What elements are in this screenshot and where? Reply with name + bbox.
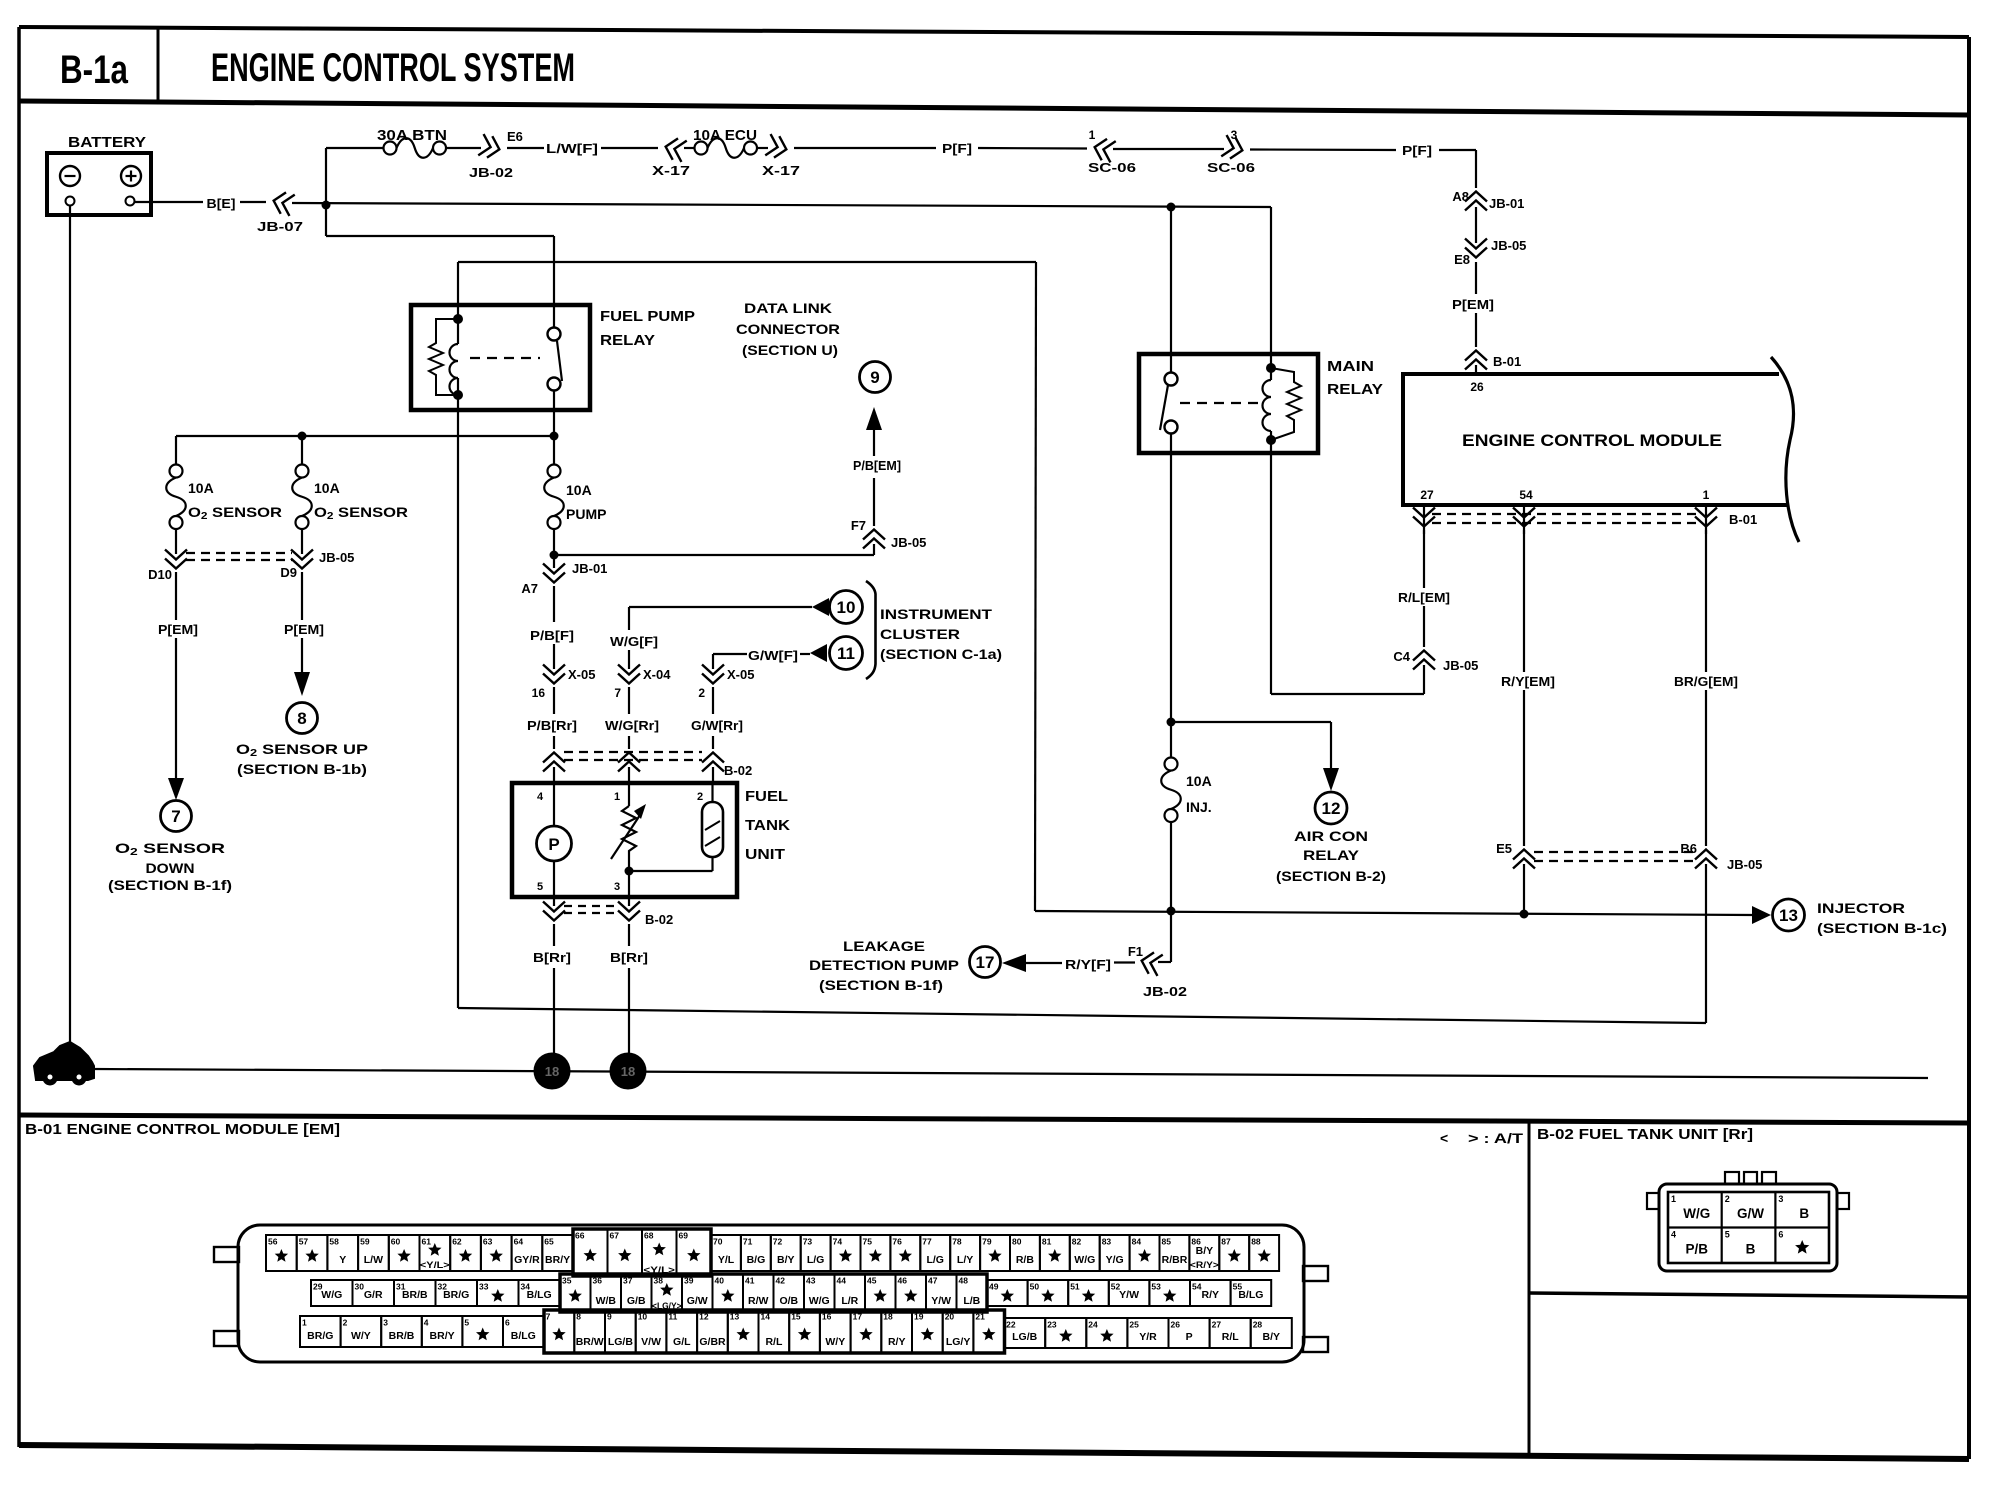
wire R/Y[F] [1114,961,1135,963]
svg-text:LG/B: LG/B [1012,1331,1037,1343]
wire A8 to E8 [1475,207,1477,243]
svg-text:LG/Y: LG/Y [946,1336,971,1348]
svg-text:G/L: G/L [673,1336,691,1348]
svg-text:G/B: G/B [627,1295,646,1307]
svg-text:B: B [1746,1242,1756,1257]
svg-text:3: 3 [383,1318,388,1328]
svg-text:R/BR: R/BR [1162,1254,1188,1266]
svg-text:B/LG: B/LG [1238,1289,1263,1301]
svg-text:5: 5 [537,881,543,893]
svg-text:B-01: B-01 [1729,512,1757,527]
svg-text:A8: A8 [1452,189,1469,204]
wire to F7 branch [553,529,555,568]
balloon 11 instrument cluster [830,637,863,670]
wire riser battery feed [325,148,327,236]
svg-text:B6: B6 [1680,841,1697,856]
svg-text:12: 12 [699,1312,709,1322]
connector JB-07 [271,190,295,216]
svg-text:BR/W: BR/W [576,1336,604,1348]
svg-text:4: 4 [537,791,544,803]
svg-text:P/B: P/B [1686,1242,1709,1257]
fuel level sensor [702,802,723,857]
fuel sender arrow [611,815,640,859]
svg-text:W/G[Rr]: W/G[Rr] [605,718,659,733]
wire G/W[F] to balloon 11 [713,653,747,655]
svg-text:W/G: W/G [1683,1206,1710,1221]
svg-text:30A BTN: 30A BTN [377,127,447,144]
svg-text:BR/G[EM]: BR/G[EM] [1674,674,1738,689]
wire battery negative to ground [69,206,71,1051]
svg-text:B/Y: B/Y [1196,1245,1214,1257]
svg-text:77: 77 [922,1237,932,1247]
svg-text:75: 75 [863,1237,873,1247]
svg-text:JB-05: JB-05 [1727,857,1762,872]
connector B-01 top [1465,351,1487,361]
wire fuse feed row [176,435,554,437]
engine control module box [1403,374,1788,505]
svg-text:R/L: R/L [1222,1331,1240,1343]
svg-text:81: 81 [1042,1237,1052,1247]
junction node at B[E] riser [322,201,331,210]
svg-text:47: 47 [928,1276,938,1286]
connector F1 JB-02 [1139,950,1163,976]
connector B-02 pin 3 [628,897,630,906]
connector E5 JB-05 [1513,850,1535,860]
wire R/L[EM] from pin 27 [1423,530,1425,588]
svg-text:W/Y: W/Y [351,1330,371,1342]
svg-text:BATTERY: BATTERY [68,134,146,151]
svg-text:72: 72 [773,1237,783,1247]
wire sensor to node 3 [711,857,713,871]
svg-text:2: 2 [697,791,703,803]
wire fuel pump relay coil feed [458,261,1036,263]
ground bus wire [94,1069,1928,1078]
svg-text:P/B[F]: P/B[F] [530,628,574,643]
svg-text:6: 6 [505,1318,510,1328]
svg-text:B-1a: B-1a [60,48,129,92]
svg-text:33: 33 [479,1282,489,1292]
svg-text:FUEL PUMP: FUEL PUMP [600,308,695,325]
dashed connector line E5-B6 [1534,851,1696,853]
svg-text:LG/B: LG/B [608,1336,633,1348]
svg-text:B-01 ENGINE CONTROL MODULE [EM: B-01 ENGINE CONTROL MODULE [EM] [25,1121,340,1138]
junction node main relay switch branch [1167,203,1176,212]
connector B-02 pin 4 [543,753,565,763]
svg-text:40: 40 [715,1276,725,1286]
svg-text:14: 14 [761,1312,771,1322]
svg-text:5: 5 [1725,1230,1730,1240]
svg-text:O/B: O/B [779,1295,798,1307]
wire to fuse 30A BTN [326,147,384,149]
svg-text:84: 84 [1132,1237,1142,1247]
wire B6 down to fuel pump relay coil return [1705,864,1707,1023]
svg-text:BR/Y: BR/Y [430,1330,455,1342]
wire branch to fuel pump relay switch [326,235,554,237]
svg-text:68: 68 [644,1231,654,1241]
svg-text:82: 82 [1072,1237,1082,1247]
svg-text:41: 41 [745,1276,755,1286]
svg-text:23: 23 [1047,1320,1057,1330]
svg-text:JB-02: JB-02 [469,165,513,180]
svg-text:10A: 10A [314,480,340,496]
wire W/G[Rr] [628,687,630,714]
connector X-05 pin 16 [543,665,565,675]
wire BR/G[EM] from pin 1 [1705,530,1707,672]
arrow to balloon 13 [1752,906,1771,924]
svg-text:39: 39 [684,1276,694,1286]
svg-text:L/W: L/W [364,1254,383,1266]
arrow to balloon 8 [294,672,310,696]
svg-text:59: 59 [360,1237,370,1247]
svg-text:7: 7 [546,1312,551,1322]
fuel pump relay switch [548,328,561,341]
svg-text:66: 66 [575,1231,585,1241]
svg-text:62: 62 [452,1237,462,1247]
svg-text:LEAKAGE: LEAKAGE [843,938,925,954]
wire P[EM] O2 down [175,572,177,620]
wire W/G[F] to balloon 10 [629,606,812,608]
svg-text:18: 18 [883,1312,893,1322]
svg-text:69: 69 [679,1231,689,1241]
wire W/G[F] column [628,607,630,630]
svg-text:B/Y: B/Y [1263,1331,1281,1343]
svg-text:51: 51 [1070,1282,1080,1292]
svg-text:ENGINE CONTROL SYSTEM: ENGINE CONTROL SYSTEM [211,46,575,90]
svg-text:4: 4 [424,1318,429,1328]
balloon 10 instrument cluster [830,591,863,624]
svg-text:2: 2 [343,1318,348,1328]
svg-text:B/G: B/G [747,1254,766,1266]
junction node injector line [1520,910,1529,919]
svg-text:43: 43 [806,1276,816,1286]
wire to connector X-17 [601,147,658,149]
svg-text:JB-05: JB-05 [1443,658,1478,673]
svg-text:JB-05: JB-05 [1491,238,1526,253]
svg-text:58: 58 [329,1237,339,1247]
svg-text:BR/B: BR/B [402,1289,428,1301]
svg-text:C4: C4 [1393,649,1410,664]
svg-text:E6: E6 [507,129,523,144]
arrow to balloon 7 [168,778,184,800]
svg-text:F1: F1 [1128,944,1143,959]
svg-text:L/Y: L/Y [957,1254,973,1266]
svg-text:<: < [1440,1130,1448,1146]
svg-text:W/G: W/G [1074,1254,1095,1266]
svg-text:DOWN: DOWN [146,860,195,876]
svg-text:Y/L: Y/L [718,1254,735,1266]
svg-text:CLUSTER: CLUSTER [880,626,960,642]
svg-text:3: 3 [614,881,620,893]
svg-text:2: 2 [1725,1194,1730,1204]
svg-text:11: 11 [668,1312,677,1322]
svg-text:6: 6 [1778,1230,1783,1240]
svg-text:19: 19 [914,1312,924,1322]
svg-text:26: 26 [1470,380,1484,394]
svg-text:38: 38 [654,1276,664,1286]
svg-text:BR/G: BR/G [307,1330,333,1342]
svg-text:G/BR: G/BR [699,1336,726,1348]
fuse 30A BTN [384,142,397,155]
svg-text:B[E]: B[E] [207,196,236,211]
svg-text:JB-01: JB-01 [1489,196,1524,211]
svg-text:BR/B: BR/B [389,1330,415,1342]
svg-text:AIR CON: AIR CON [1294,828,1368,844]
wire fuse to X-17 right [757,147,768,149]
svg-text:CONNECTOR: CONNECTOR [736,321,840,337]
svg-text:87: 87 [1221,1237,1231,1247]
dashed connector line D10-D9 [186,552,292,554]
wire E5 to injector line [1523,864,1525,914]
svg-text:71: 71 [743,1237,753,1247]
fuel tank unit connector B-02 body [1659,1184,1837,1271]
connector D9 JB-05 [301,529,303,554]
svg-text:11: 11 [837,644,855,663]
svg-text:(SECTION B-1b): (SECTION B-1b) [237,761,367,777]
svg-text:> : A/T: > : A/T [1468,1130,1524,1146]
svg-text:20: 20 [945,1312,955,1322]
connector X-04 pin 7 [618,665,640,675]
svg-text:P[EM]: P[EM] [284,622,324,637]
svg-text:12: 12 [1322,799,1341,818]
ground node 18 left [534,1053,571,1090]
wire pin 3 down [628,871,630,897]
svg-text:<Y/L>: <Y/L> [420,1260,450,1271]
wire level sensor to pin 2 [711,783,713,802]
svg-text:60: 60 [391,1237,401,1247]
connector E8 JB-05 [1465,239,1487,249]
svg-text:G/W: G/W [687,1295,708,1307]
svg-text:(SECTION B-1f): (SECTION B-1f) [819,977,943,993]
svg-text:10A: 10A [566,482,592,498]
svg-text:Y/R: Y/R [1139,1331,1157,1343]
svg-text:10A ECU: 10A ECU [693,127,757,144]
instrument cluster bracket [866,581,876,679]
svg-text:L/G: L/G [926,1254,944,1266]
svg-text:15: 15 [791,1312,801,1322]
svg-text:G/W[Rr]: G/W[Rr] [691,718,743,733]
balloon 8 O2 sensor up [287,703,318,734]
svg-text:G/R: G/R [364,1289,383,1301]
svg-text:RELAY: RELAY [600,332,655,349]
svg-text:JB-07: JB-07 [257,219,303,234]
connector D10 [175,529,177,554]
svg-text:36: 36 [593,1276,603,1286]
svg-text:ENGINE CONTROL MODULE: ENGINE CONTROL MODULE [1462,431,1722,450]
svg-text:Y: Y [339,1254,346,1266]
svg-text:A7: A7 [521,581,538,596]
svg-text:(SECTION C-1a): (SECTION C-1a) [880,646,1002,662]
connector A8 JB-01 [1465,192,1487,202]
svg-text:16: 16 [532,686,546,700]
svg-text:B-02 FUEL TANK UNIT [Rr]: B-02 FUEL TANK UNIT [Rr] [1537,1126,1753,1143]
connector B-02 pin 5 [553,897,555,906]
svg-text:DATA LINK: DATA LINK [744,300,832,316]
fuel pump relay coil bottom wire [457,395,459,402]
svg-text:45: 45 [867,1276,877,1286]
wire to P[F] label 2 [1250,148,1396,151]
svg-text:(SECTION B-2): (SECTION B-2) [1276,868,1386,884]
wire to P[F] label [794,147,936,149]
svg-text:P[EM]: P[EM] [1452,297,1494,312]
svg-text:B-01: B-01 [1493,354,1521,369]
svg-text:4: 4 [1671,1230,1676,1240]
fuel tank unit box [512,783,737,897]
svg-text:27: 27 [1212,1320,1222,1330]
connector E6 JB-02 [478,134,502,160]
svg-text:76: 76 [892,1237,902,1247]
connector A7 JB-01 [543,564,565,574]
wire P/B[EM] [873,478,875,526]
arrow to balloon 12 [1323,768,1339,791]
svg-text:1: 1 [1089,128,1096,142]
dashed connector line B-02 bottom [564,905,618,907]
wire E6 to L/W[F] label [507,147,544,149]
fuse 10A PUMP [553,436,555,465]
svg-text:R/Y[EM]: R/Y[EM] [1501,674,1555,689]
svg-text:B-02: B-02 [645,912,673,927]
wire B[E] to JB-07 [240,201,266,203]
svg-text:INJECTOR: INJECTOR [1817,900,1905,916]
svg-text:JB-05: JB-05 [891,535,926,550]
fuel pump relay resistor [429,319,458,395]
svg-text:18: 18 [545,1064,559,1079]
svg-text:B[Rr]: B[Rr] [610,950,648,965]
connector B-01 pin 54 [1523,505,1525,534]
svg-text:P/B[Rr]: P/B[Rr] [527,718,577,733]
svg-text:10A: 10A [188,480,214,496]
svg-text:(SECTION B-1f): (SECTION B-1f) [108,877,232,893]
svg-text:85: 85 [1162,1237,1172,1247]
junction node air con branch [1167,718,1176,727]
svg-text:E8: E8 [1454,252,1470,267]
svg-text:<R/Y>: <R/Y> [1190,1260,1219,1271]
wire to data link connector [554,554,874,556]
svg-text:DETECTION PUMP: DETECTION PUMP [809,957,959,973]
main relay switch [1170,207,1172,373]
svg-text:MAIN: MAIN [1327,358,1374,375]
ECM connector row pins 29-55 [311,1280,353,1306]
svg-text:53: 53 [1151,1282,1161,1292]
svg-text:B[Rr]: B[Rr] [533,950,571,965]
connector X-05 pin 2 [702,665,724,675]
wire B[Rr] right [628,924,630,946]
svg-text:56: 56 [268,1237,278,1247]
ground node 18 right [610,1053,647,1090]
wire to SC-06 pin 1 [978,147,1087,150]
svg-text:SC-06: SC-06 [1207,160,1255,175]
svg-text:B/LG: B/LG [511,1330,536,1342]
svg-text:X-05: X-05 [727,667,754,682]
wire fuse to connector E6 [446,147,481,149]
svg-text:R/L: R/L [765,1336,783,1348]
svg-text:70: 70 [713,1237,723,1247]
svg-text:49: 49 [989,1282,999,1292]
fuel pump relay coil [457,262,459,320]
svg-text:P: P [1186,1331,1193,1343]
ECM connector row pins 56-88 [266,1235,297,1271]
wire to fuse 10A ECU [684,147,695,149]
svg-text:27: 27 [1420,488,1434,502]
svg-text:1: 1 [1671,1194,1676,1204]
dashed connector line B-02 top [564,751,702,753]
svg-text:BR/G: BR/G [443,1289,469,1301]
svg-text:25: 25 [1129,1320,1139,1330]
wire P[F] corner to ECM pin 26 [1439,149,1476,151]
wire P[EM] O2 up [301,572,303,620]
svg-text:8: 8 [576,1312,581,1322]
wire P/B[Rr] [553,687,555,714]
arrow to balloon 17 [1002,954,1026,972]
svg-text:30: 30 [355,1282,365,1292]
connector X-17 right [765,134,789,160]
svg-text:Y/G: Y/G [1106,1254,1124,1266]
svg-text:G/W: G/W [1737,1206,1764,1221]
svg-text:37: 37 [623,1276,633,1286]
main relay box [1139,354,1318,453]
svg-text:BR/Y: BR/Y [545,1254,570,1266]
svg-text:UNIT: UNIT [745,846,785,863]
svg-text:R/Y[F]: R/Y[F] [1065,957,1111,972]
svg-text:L/G: L/G [807,1254,825,1266]
svg-text:W/Y: W/Y [825,1336,845,1348]
svg-text:46: 46 [898,1276,908,1286]
fuse 10A O2 sensor right [301,436,303,465]
svg-text:28: 28 [1253,1320,1263,1330]
svg-text:24: 24 [1088,1320,1098,1330]
wire into ECM pin 26 [1475,365,1477,375]
wire B[E] from battery [134,201,203,203]
svg-text:17: 17 [976,953,995,972]
wire G/W column [712,654,714,669]
connector X-17 left [663,136,687,162]
svg-text:INJ.: INJ. [1186,799,1212,815]
svg-text:2: 2 [698,686,705,700]
wire B[E] JB-07 to main relay coil [292,203,1271,207]
fuel pump relay dashed link [470,357,540,359]
svg-text:10: 10 [638,1312,648,1322]
svg-text:G/W[F]: G/W[F] [748,648,798,663]
svg-text:1: 1 [1703,488,1710,502]
svg-text:SC-06: SC-06 [1088,160,1136,175]
wire to E5 [1523,690,1525,846]
svg-text:67: 67 [610,1231,620,1241]
svg-text:W/G[F]: W/G[F] [610,634,658,649]
wire R/Y[EM] from pin 54 [1523,530,1525,672]
svg-text:RELAY: RELAY [1327,381,1383,398]
svg-text:83: 83 [1102,1237,1112,1247]
battery [47,153,151,215]
svg-text:X-17: X-17 [652,163,690,178]
svg-text:B/LG: B/LG [527,1289,552,1301]
svg-text:1: 1 [614,791,620,803]
svg-text:1: 1 [302,1318,307,1328]
connector B-02 pin 2 [702,753,724,763]
svg-text:V/W: V/W [641,1336,661,1348]
svg-text:JB-05: JB-05 [319,550,354,565]
svg-text:35: 35 [562,1276,572,1286]
wire to C4 [1423,606,1425,647]
ECM connector B-01 body [238,1225,1304,1362]
svg-text:P: P [548,835,559,854]
svg-text:P[EM]: P[EM] [158,622,198,637]
fuel pump relay box [411,305,590,410]
connector B-01 pin 1 [1705,505,1707,534]
svg-text:R/B: R/B [1016,1254,1035,1266]
svg-text:(SECTION U): (SECTION U) [742,342,838,358]
connector F7 JB-05 [863,530,885,540]
svg-text:W/G: W/G [321,1289,342,1301]
fuel sender resistor [628,783,630,806]
